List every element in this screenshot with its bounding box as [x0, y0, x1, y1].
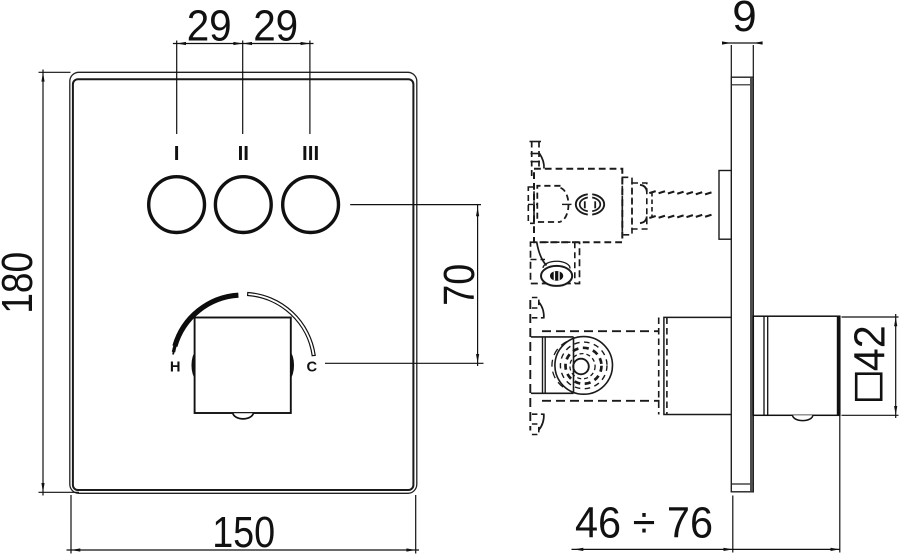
- cartridge top edge solid: [531, 336, 574, 338]
- top bracket hook solid: [540, 154, 545, 169]
- shaft start tick dashed: [651, 192, 653, 217]
- oval connector dashed: [576, 194, 604, 214]
- cartridge outer dashed circle: [560, 342, 607, 389]
- valve body rect dashed: [534, 169, 622, 242]
- knob base ring line 1: [763, 316, 765, 415]
- svg-text:180: 180: [0, 252, 42, 314]
- housing end dashed v1: [658, 318, 660, 415]
- screw top rim arc: [543, 261, 570, 268]
- lower bracket bottom hook solid: [539, 414, 544, 431]
- oval connector center split: [588, 193, 592, 217]
- button II circle: [215, 177, 271, 233]
- dim 29 extension line I: [176, 41, 178, 135]
- leader from C: [325, 362, 484, 364]
- top bracket dashed v2: [538, 142, 540, 167]
- bottom bracket outline dashed: [531, 242, 580, 283]
- svg-text:H: H: [170, 360, 181, 376]
- SIDE_VIEW: [731, 77, 840, 492]
- dim 9 extension right: [752, 45, 754, 77]
- shaft bottom thread dashes: [649, 216, 655, 218]
- dim 150 extension right: [415, 495, 417, 554]
- dim 42 extension bottom: [842, 414, 899, 416]
- dim 29 extension line II: [242, 41, 244, 135]
- dim 46-76 extension wall: [732, 496, 734, 553]
- svg-text:C: C: [306, 360, 317, 376]
- svg-text:70: 70: [435, 264, 484, 306]
- square symbol for 42: [856, 374, 881, 400]
- svg-text:29: 29: [187, 2, 232, 51]
- housing end dashed v2: [666, 318, 668, 415]
- UPPER VALVE BODY (hidden lines): [528, 142, 731, 286]
- cartridge chord solid: [573, 337, 575, 393]
- left protrusion dashed: [528, 187, 534, 223]
- wall plate top cap line: [731, 84, 753, 86]
- adapter corner top solid: [640, 185, 647, 192]
- dim 42 line: [895, 314, 897, 418]
- knob left side notch: [191, 352, 195, 379]
- screw outer ellipse: [541, 266, 572, 286]
- button III circle: [283, 177, 339, 233]
- dim 180 line: [42, 70, 44, 496]
- knob side profile: [753, 316, 840, 415]
- wall plate profile: [731, 77, 753, 492]
- svg-text:9: 9: [732, 0, 756, 41]
- plate outer contour: [70, 72, 417, 493]
- cartridge double vertical solid: [542, 337, 544, 393]
- lower bracket bottom tab: [532, 414, 544, 434]
- hot side thick arc: [175, 295, 239, 346]
- dim 180 extension bottom: [39, 491, 80, 493]
- svg-text:III: III: [302, 142, 319, 165]
- dim 9 line: [726, 42, 760, 44]
- flange step 2 dashed: [632, 183, 647, 229]
- wall plate bottom cap line: [731, 483, 753, 485]
- oval connector tick right: [594, 201, 596, 208]
- lower bracket top hook solid: [539, 302, 544, 319]
- bottom bracket inner tick: [531, 259, 546, 261]
- button I circle: [149, 177, 205, 233]
- top bracket tick 2: [531, 161, 541, 163]
- dim 29 extension line III: [309, 41, 311, 135]
- lower bracket spine dashed: [529, 300, 531, 431]
- dim 150 line: [67, 549, 420, 551]
- collar solid rect: [664, 317, 731, 414]
- lower bracket top tab: [532, 298, 544, 318]
- leader from button III: [350, 204, 481, 206]
- cartridge center circle solid: [573, 359, 589, 375]
- flange step 1 dashed: [622, 177, 632, 235]
- svg-text:29: 29: [253, 2, 298, 51]
- cartridge housing bottom dashed: [542, 400, 660, 402]
- knob base ring line 2: [767, 316, 769, 415]
- oval connector inner ring: [580, 197, 601, 211]
- screw slot slits: [553, 272, 555, 281]
- knob square: [195, 318, 291, 414]
- dim 29 29 line: [173, 43, 314, 45]
- knob side bottom bump: [793, 415, 813, 420]
- oval connector tick left: [584, 201, 586, 208]
- cartridge left thin arc dashed: [552, 342, 567, 390]
- knob bottom bump: [233, 413, 254, 419]
- cartridge big circle solid: [555, 337, 613, 395]
- bracket-screw curl solid: [537, 243, 547, 266]
- cartridge inner dashed circle: [570, 354, 595, 379]
- svg-text:I: I: [174, 142, 180, 165]
- protrusion center tick: [528, 203, 537, 205]
- dim 150 extension left: [70, 495, 72, 554]
- top bracket tick 1: [531, 153, 541, 155]
- svg-text:150: 150: [212, 508, 275, 557]
- adapter corner bottom solid: [640, 216, 647, 223]
- cylinder bulge arc dashed: [561, 188, 569, 222]
- shaft flange solid: [719, 171, 731, 240]
- dim 29 arrows: [177, 42, 186, 45]
- dim 180 extension top: [39, 71, 71, 73]
- dim 9 extension left: [730, 45, 732, 77]
- dim 46-76 extension knob: [839, 416, 841, 553]
- cartridge housing top dashed: [542, 330, 660, 332]
- shaft top thread dashes: [649, 191, 655, 193]
- svg-text:42: 42: [846, 325, 895, 371]
- svg-text:46 ÷ 76: 46 ÷ 76: [575, 498, 713, 547]
- cartridge bottom edge solid: [531, 392, 574, 394]
- inner cylinder dashed: [537, 186, 560, 222]
- dim 42 extension top: [842, 316, 899, 318]
- LOWER CARTRIDGE: [530, 298, 731, 435]
- screw slot dark oval: [550, 271, 563, 281]
- svg-text:II: II: [238, 142, 249, 165]
- bottom bracket vertical tick: [574, 242, 576, 283]
- dim 70 line: [477, 204, 479, 366]
- cold side outline arc: [248, 293, 316, 356]
- top bracket cap: [530, 141, 542, 143]
- cartridge gear dashed circle: [566, 348, 602, 384]
- knob right side notch: [290, 352, 294, 379]
- wall plate right edge accent: [750, 78, 753, 492]
- top bracket dashed v1: [531, 142, 533, 178]
- dim 46-76 line: [572, 548, 840, 550]
- knob face thick edge: [837, 316, 840, 415]
- plate inner bevel contour: [73, 79, 414, 490]
